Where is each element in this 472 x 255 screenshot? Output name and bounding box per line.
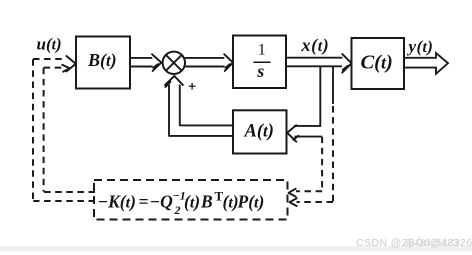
svg-text:B: B [200,192,213,212]
wire: up-arrow left vertical into summer [168,85,170,137]
svg-text:y(t): y(t) [407,37,434,56]
svg-text:s: s [256,61,264,81]
wire: up-arrow right vertical into summer [179,85,181,126]
wire: dashed vertical from x(t) branch down to K box (right) [332,106,334,202]
svg-text:u(t): u(t) [37,35,62,54]
wire: dashed bottom-lower horizontal from K box to outer vertical [33,200,95,202]
wire: dashed top-inner horizontal into B(t) [44,67,62,69]
wire: A(t) output upper line [180,124,233,126]
arrowheads into K box [289,189,297,206]
svg-text:(t): (t) [223,192,239,212]
wire: summer to integrator lower line [185,66,225,68]
svg-text:(t): (t) [184,192,200,212]
arrowhead up into summer [165,76,183,87]
watermark band [0,246,472,252]
summing junction X [166,55,182,71]
wire: dashed horizontal lower into K box right [297,201,334,203]
block integrator 1/s [233,36,286,89]
svg-text:x(t): x(t) [301,35,330,56]
wire: A(t) input lower line [295,136,323,138]
svg-text:1: 1 [258,42,266,59]
wire: B(t) to summer upper line [130,57,152,59]
summing junction circle [163,52,185,74]
wire: dashed feedback outer-left vertical [32,59,34,200]
block B(t) [76,37,130,89]
svg-text:B(t): B(t) [87,50,117,71]
svg-text:−K(t): −K(t) [98,192,136,212]
plus sign [189,83,196,90]
wire: A(t) input upper line [294,125,321,127]
wire: integrator to C(t) upper line [286,57,342,59]
wire: dashed bottom-upper horizontal from K box to inner vertical [44,191,95,193]
K box formula text [98,189,265,218]
block A(t) [233,110,287,153]
wire: dashed top-outer horizontal into B(t) [33,58,66,60]
watermark CSDN [356,237,472,249]
arrowhead into B(t) [62,56,75,72]
svg-text:P(t): P(t) [237,192,265,212]
arrowhead into A(t) [287,125,298,142]
wire: dashed vertical below A(t) line to K box (left) [321,137,323,190]
wire: A(t) output lower line [169,135,233,137]
svg-text:C(t): C(t) [361,52,393,74]
wire: x(t) branch solid vertical to A(t) [319,66,321,126]
arrowhead into summer (from B) [152,54,161,71]
wire: integrator to C(t) lower line [286,65,342,67]
arrowhead into C(t) [342,54,351,73]
output hollow arrow y(t) [404,53,448,74]
wire: x(t) branch right vertical solid upper part [332,66,334,104]
arrowhead into integrator [224,54,233,71]
wire: dashed feedback inner-left vertical [43,68,45,192]
svg-text:=: = [139,192,149,212]
dashed K(t) box [94,180,288,220]
svg-text:A(t): A(t) [244,122,274,142]
wire: B(t) to summer lower line [130,66,153,68]
svg-text:2: 2 [174,203,181,217]
wire: summer to integrator upper line [185,57,224,59]
svg-text:−Q: −Q [150,192,174,212]
svg-text:@48326123: @48326123 [404,237,458,249]
wire: dashed horizontal upper into K box right [296,190,322,192]
block C(t) [352,38,405,89]
